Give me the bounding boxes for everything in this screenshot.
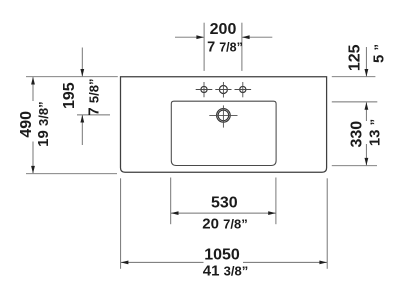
svg-text:5 ”: 5 ” xyxy=(371,44,388,63)
svg-text:490: 490 xyxy=(18,111,35,138)
svg-text:19 3/8”: 19 3/8” xyxy=(35,101,52,146)
svg-text:7 5/8”: 7 5/8” xyxy=(85,79,102,116)
svg-text:1050: 1050 xyxy=(204,246,240,263)
svg-text:200: 200 xyxy=(210,21,237,38)
svg-text:330: 330 xyxy=(349,121,366,148)
svg-text:125: 125 xyxy=(346,44,363,71)
svg-text:530: 530 xyxy=(211,195,238,212)
svg-text:20 7/8”: 20 7/8” xyxy=(202,216,247,233)
svg-text:7 7/8”: 7 7/8” xyxy=(207,40,243,56)
svg-text:195: 195 xyxy=(61,82,78,109)
svg-text:41 3/8”: 41 3/8” xyxy=(203,263,248,280)
svg-text:13 ”: 13 ” xyxy=(367,119,384,146)
